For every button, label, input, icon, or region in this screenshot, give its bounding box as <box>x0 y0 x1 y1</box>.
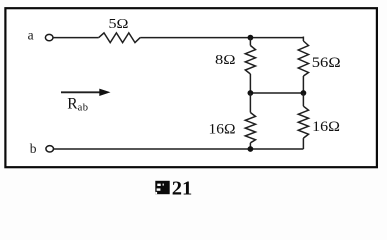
svg-text:56Ω: 56Ω <box>312 55 341 71</box>
Rab direction arrow <box>61 89 111 96</box>
wire stub bottom of left 16ohm <box>249 143 251 149</box>
wire stub top of left 16ohm <box>249 93 251 113</box>
junction node dot top <box>248 35 254 41</box>
wire resistor to top-right corner <box>140 37 303 39</box>
terminal b circle <box>46 146 54 152</box>
resistor 56ohm vertical <box>298 41 308 76</box>
junction node dot bottom <box>248 146 254 152</box>
wire stub top of right 16ohm <box>302 93 304 106</box>
svg-text:a: a <box>28 28 34 43</box>
bottom wire <box>54 148 304 150</box>
svg-text:16Ω: 16Ω <box>312 119 340 135</box>
wire stub bottom of 56ohm <box>302 76 304 93</box>
wire stub bottom of 8ohm <box>249 74 251 93</box>
border frame <box>5 8 377 167</box>
wire stub top of 8ohm <box>249 38 251 46</box>
resistor right 16ohm vertical <box>298 106 308 138</box>
svg-text:21: 21 <box>172 178 193 200</box>
junction node dot middle-right <box>301 90 307 96</box>
wire stub bottom of right 16ohm <box>302 138 304 149</box>
resistor 8ohm vertical <box>245 46 255 75</box>
svg-text:5Ω: 5Ω <box>109 16 129 31</box>
wire a to resistor <box>53 37 99 39</box>
terminal a circle <box>45 34 53 40</box>
svg-text:8Ω: 8Ω <box>215 53 236 68</box>
caption CJK character (figure) <box>155 181 169 194</box>
svg-text:b: b <box>30 141 37 156</box>
svg-text:16Ω: 16Ω <box>209 122 236 138</box>
resistor left 16ohm vertical <box>245 113 255 143</box>
junction node dot middle-left <box>248 90 254 96</box>
wire stub top of 56ohm <box>302 37 304 42</box>
middle wire between nodes <box>250 92 303 94</box>
resistor R 5ohm <box>99 33 141 43</box>
